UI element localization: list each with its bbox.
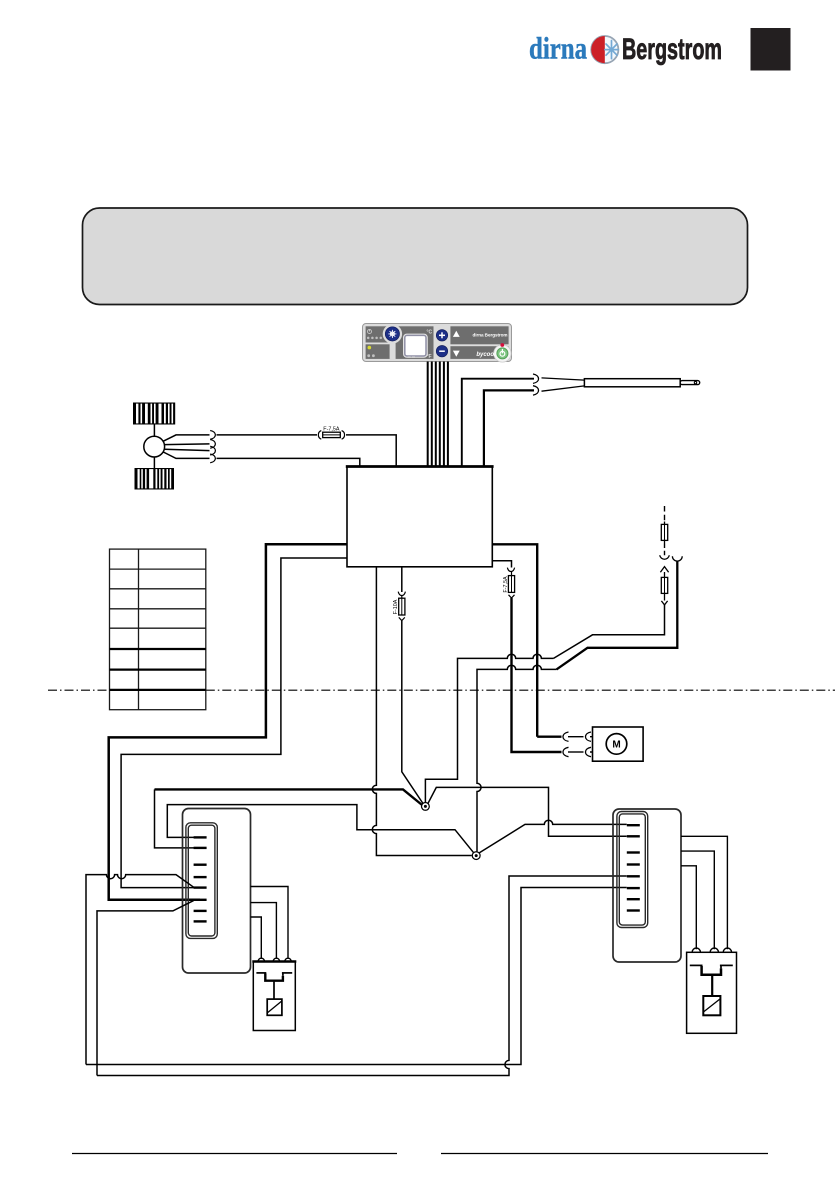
legend table (8 rows)	[110, 549, 206, 710]
wire controller bottom to fuse F3	[401, 567, 403, 592]
wire to motor M2 lower	[568, 751, 584, 753]
svg-text:dirna: dirna	[529, 31, 587, 66]
connector fan lead 1	[210, 431, 215, 440]
wire into motor box lower	[590, 747, 607, 752]
fuse F4 (vertical)	[661, 522, 667, 544]
connector J5 (half)	[661, 593, 667, 605]
svg-text:°C: °C	[427, 329, 433, 335]
wire to motor M2 upper	[568, 736, 584, 738]
svg-text:bycool: bycool	[476, 352, 496, 358]
connector J4 pair	[660, 555, 670, 577]
wire fan lead 1	[163, 435, 209, 441]
wire left feed to node N1 (thick)	[155, 789, 424, 806]
wire controller to sensor (lower)	[484, 390, 534, 466]
wire controller left thick feed (to left relay bar6)	[109, 544, 347, 900]
wire bottom bus lower (to right strip bar5)	[97, 876, 627, 1076]
left relay unit K1 (terminal strip)	[186, 823, 217, 939]
footer rule left	[72, 1153, 397, 1155]
wire bundle panel-to-controller (6 wires)	[428, 362, 448, 467]
wire hop line lower (to node N2 riser)	[477, 665, 557, 851]
connector J-M2-1	[563, 732, 569, 741]
wire fan lead 4 to controller	[217, 458, 360, 465]
wire fan lead 4	[163, 452, 209, 458]
wire supply branch 2 (to hop line lower, thick)	[557, 561, 678, 670]
heater resistor pack R-bottom (striped box)	[135, 468, 175, 490]
wire fan lead 1 to fuse F1	[217, 434, 318, 436]
svg-text:dirna Bergstrom: dirna Bergstrom	[473, 333, 508, 338]
connector J-M2-1b	[585, 732, 591, 741]
wire fuse F1 to controller	[346, 435, 396, 466]
wire fan lead 2	[165, 443, 210, 446]
pressure switch S2 (box)	[687, 952, 737, 1033]
connector fan lead 3 (unused)	[210, 446, 215, 455]
motor M2 (condenser fan)	[593, 727, 644, 761]
fuse F1 F-7,5A	[318, 431, 344, 440]
svg-text:F-7,5A: F-7,5A	[503, 576, 509, 593]
wire controller right to fuse F2	[492, 561, 511, 568]
connector J-M2-2b	[585, 747, 591, 756]
axis line (dash-dot, left segment)	[48, 689, 110, 691]
wire controller bottom drop (to node N2)	[372, 567, 472, 856]
fuse F5 (vertical)	[661, 577, 667, 593]
connector J6 (open cup)	[672, 556, 682, 561]
wire controller to sensor (upper)	[462, 379, 534, 466]
wire fuse F2 down (thick)	[512, 598, 562, 752]
node N1 (junction)	[422, 803, 430, 811]
pressure switch S2 terminals	[692, 948, 731, 952]
connector J-probe-2	[533, 386, 539, 395]
controller unit A1 (box)	[346, 467, 494, 567]
heater resistor pack R-top (striped box)	[133, 403, 175, 425]
wire K2 to pressure switch S2 (b)	[681, 851, 714, 949]
wire controller right thick feed	[492, 544, 537, 736]
wire battery dashed lead	[664, 506, 666, 522]
connector J-probe-1	[533, 374, 539, 383]
wire fuse F4 to connector (dashed)	[664, 544, 666, 557]
wire into motor box upper	[590, 737, 607, 742]
node N2 (junction)	[472, 852, 480, 860]
right relay unit K2 (terminal strip)	[617, 812, 648, 928]
wire K1 to pressure switch S1 (a)	[251, 887, 289, 959]
left relay K1 terminal bars	[194, 836, 207, 922]
fan motor hub M1 (circle)	[144, 436, 165, 457]
connector fan lead 4	[210, 454, 215, 463]
temperature sensor probe B1	[542, 378, 700, 391]
svg-text:F-10A: F-10A	[393, 599, 399, 614]
svg-text:F-7,5A: F-7,5A	[323, 427, 340, 433]
left relay unit K1 (outer box)	[183, 809, 251, 974]
connector fan lead 2 (unused)	[210, 440, 215, 449]
footer rule right	[441, 1153, 768, 1155]
pressure switch S1 (box)	[252, 962, 296, 1031]
wire ground loop lower (to left bar6)	[97, 901, 194, 1076]
wire K2 to pressure switch S2 (c)	[681, 866, 696, 950]
wire supply branch 1 (to hop line upper)	[554, 605, 665, 659]
wire left relay bar2 riser	[155, 789, 201, 848]
pressure switch S1 terminals	[258, 958, 291, 961]
wire compressor feed upper (thick)	[537, 736, 561, 738]
axis line (dash-dot, right segment)	[206, 689, 835, 691]
svg-text:Bergstrom: Bergstrom	[622, 33, 722, 66]
wire K1 to pressure switch S1 (b)	[251, 903, 277, 959]
wire node N1 to right strip bar2	[428, 787, 627, 836]
wire fuse F3 to node N1	[402, 621, 424, 805]
wire node N2 to right strip bar1	[478, 820, 626, 853]
wire fan lead 3	[165, 449, 210, 450]
wire controller left thin feed (to left relay bar5)	[121, 558, 347, 888]
connector J-M2-2	[563, 747, 569, 756]
wire left strip bar1 riser (to node N2)	[167, 805, 474, 854]
wire fan hub to R-bottom	[153, 457, 155, 468]
svg-text:°F: °F	[427, 354, 432, 360]
wire hop line upper (to node N1 riser)	[425, 654, 553, 802]
wire bottom bus upper (to right strip bar6)	[86, 888, 627, 1065]
note box (empty rounded rectangle)	[83, 208, 748, 305]
wire K2 to pressure switch S2 (a)	[681, 836, 727, 949]
fuse F2 F-7,5A (vertical)	[507, 568, 514, 598]
right relay K2 terminal bars	[627, 824, 640, 912]
fuse F3 F-10A (vertical)	[398, 592, 405, 621]
wire ground loop upper (bumps, to left bar5)	[86, 875, 194, 1065]
wire K1 to pressure switch S1 (c)	[251, 917, 262, 959]
right relay unit K2 (outer box)	[613, 809, 681, 962]
svg-text:M: M	[612, 740, 620, 751]
logo emblem circle	[591, 36, 618, 63]
wire fan hub to R-top	[153, 425, 155, 437]
logo black square	[751, 28, 791, 71]
control panel U1	[363, 324, 512, 363]
